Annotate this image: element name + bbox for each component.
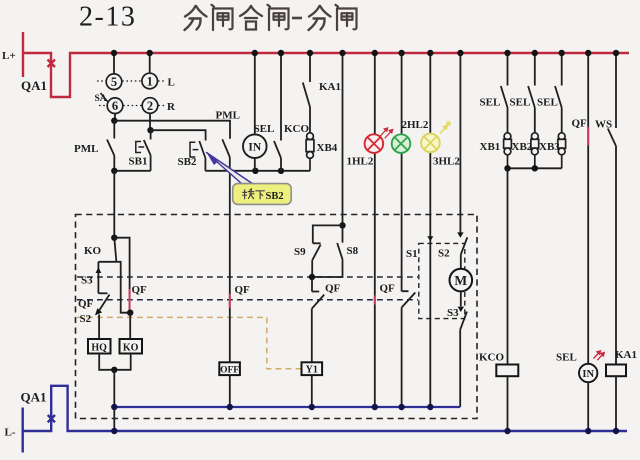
svg-text:S2: S2 bbox=[438, 248, 450, 260]
svg-text:1HL2: 1HL2 bbox=[347, 156, 374, 168]
wire to HQ coil bbox=[98, 315, 100, 340]
contact QF break (Y1 branch) bbox=[312, 277, 324, 362]
node L- bus x114 bbox=[111, 428, 117, 434]
svg-text:SEL: SEL bbox=[556, 352, 577, 364]
svg-text:SEL: SEL bbox=[480, 97, 501, 109]
wire KO to S3/inner bypass bbox=[98, 262, 130, 313]
svg-text:S9: S9 bbox=[294, 246, 306, 258]
svg-text:XB4: XB4 bbox=[317, 142, 338, 154]
coil Y1 bbox=[302, 362, 323, 375]
node inner bus 1HL2 bbox=[372, 404, 378, 410]
svg-text:QA1: QA1 bbox=[21, 390, 47, 405]
lamp 1HL2 arrows bbox=[380, 128, 393, 138]
svg-text:SB2: SB2 bbox=[178, 156, 197, 168]
fuse XB4 bbox=[306, 133, 314, 171]
callout balloon 按下SB2 bbox=[207, 153, 292, 205]
svg-text:S3: S3 bbox=[81, 275, 93, 287]
svg-text:S8: S8 bbox=[347, 245, 359, 257]
svg-text:L+: L+ bbox=[2, 50, 16, 62]
inner blue return bus bbox=[114, 406, 460, 408]
lamp 1HL2 bbox=[365, 134, 384, 153]
svg-text:L: L bbox=[168, 77, 175, 89]
breaker QA1 (bottom, blue) with L- lead bbox=[23, 386, 627, 453]
contact QF red segment on KO branch bbox=[129, 289, 131, 310]
wire XB merge bar bbox=[508, 167, 562, 169]
node bus top row bbox=[111, 50, 619, 56]
svg-text:5: 5 bbox=[111, 75, 117, 89]
svg-text:OFF: OFF bbox=[220, 365, 239, 375]
wire from SA-6 to node bbox=[114, 114, 116, 119]
breaker QA1 (top, red) with bus L+ bbox=[23, 32, 629, 97]
node PML/SB1 bottom bbox=[111, 168, 117, 174]
contact SEL 2 bbox=[528, 53, 535, 133]
svg-text:QA1: QA1 bbox=[21, 78, 47, 93]
selector switch SA contact 6 bbox=[107, 98, 123, 114]
node top of KO bypass bbox=[111, 235, 117, 241]
contact QF red segment right bbox=[587, 127, 589, 145]
svg-text:SEL: SEL bbox=[510, 97, 531, 109]
selector switch SA contact 5 bbox=[106, 74, 122, 90]
svg-text:S1: S1 bbox=[406, 248, 418, 260]
button OFF bbox=[219, 362, 240, 375]
motor M bbox=[450, 269, 473, 292]
wire KCO coil to L- bus bbox=[507, 376, 509, 431]
svg-text:XB1: XB1 bbox=[480, 141, 501, 153]
svg-text:1: 1 bbox=[147, 75, 153, 89]
svg-text:L-: L- bbox=[5, 427, 16, 439]
contact QF with arrow (left chain) bbox=[95, 295, 110, 316]
lamp 2HL2 branch wire with QF break contact bbox=[402, 53, 416, 407]
wire junction down to L- bus bbox=[113, 370, 115, 431]
node rail-IN bbox=[252, 168, 258, 174]
fuse XB3 bbox=[558, 133, 566, 169]
svg-text:SEL: SEL bbox=[254, 123, 275, 135]
SEL IN arrows bbox=[594, 351, 605, 360]
svg-text:WS: WS bbox=[595, 119, 612, 131]
node S9/S8 bottom bbox=[309, 274, 315, 280]
contact S8 bbox=[312, 225, 342, 277]
wire PML-SB1 bottom rail bbox=[114, 170, 150, 172]
node inner bus Y1 bbox=[309, 404, 315, 410]
label SA with pointer bbox=[95, 93, 108, 104]
linkage dashed line tan to Y1 bbox=[77, 317, 301, 368]
coil HQ bbox=[88, 339, 111, 354]
lamp SEL IN (bottom) bbox=[579, 364, 597, 382]
svg-text:XB2: XB2 bbox=[512, 141, 533, 153]
contact QF red segment on OFF branch bbox=[229, 294, 231, 308]
selector switch SA contact 2 bbox=[142, 98, 158, 114]
svg-text:QF: QF bbox=[132, 284, 148, 296]
contact S3 (mechanism) bbox=[460, 312, 467, 407]
svg-text:HQ: HQ bbox=[91, 343, 107, 354]
svg-text:PML: PML bbox=[216, 110, 240, 122]
contact S2 (mechanism) bbox=[461, 237, 468, 268]
lamp 3HL2 arrow bbox=[440, 121, 451, 134]
fuse XB2 bbox=[531, 133, 539, 169]
contact PML (left) bbox=[107, 121, 114, 171]
lamp 1HL2 branch wire bbox=[374, 53, 376, 407]
node L- bus SEL bbox=[585, 428, 591, 434]
svg-text:SB2: SB2 bbox=[266, 191, 284, 202]
node XB1 merge bbox=[504, 165, 510, 171]
svg-text:M: M bbox=[454, 273, 467, 288]
contact PML (second) bbox=[222, 139, 230, 171]
lamp 3HL2 bbox=[421, 134, 440, 153]
node S9/S8 split bbox=[339, 222, 345, 228]
svg-text:S2: S2 bbox=[80, 313, 92, 325]
svg-text:KA1: KA1 bbox=[615, 349, 637, 361]
contact WS bbox=[608, 53, 616, 365]
node L- bus KCO bbox=[504, 428, 510, 434]
svg-text:SEL: SEL bbox=[537, 97, 558, 109]
svg-text:QF: QF bbox=[380, 283, 396, 295]
wire S9/S8 branch from bus bbox=[342, 53, 344, 225]
contact SEL 1 bbox=[501, 53, 508, 133]
node rail-KCO bbox=[278, 168, 284, 174]
coil KCO bbox=[479, 352, 518, 377]
contact KA1 bbox=[303, 53, 310, 133]
wire IN to L- bus bbox=[587, 382, 589, 431]
dashed mechanism box S1 bbox=[419, 243, 465, 318]
limit switch S3 (left chain) bbox=[96, 262, 108, 294]
svg-text:QF: QF bbox=[325, 283, 341, 295]
svg-text:KCO: KCO bbox=[284, 123, 310, 135]
node XB2 merge bbox=[532, 165, 538, 171]
svg-text:KA1: KA1 bbox=[319, 81, 341, 93]
node inner bus x114 bbox=[111, 404, 117, 410]
coil KO bbox=[120, 339, 143, 354]
selector switch SA contact 1 bbox=[142, 73, 158, 89]
wire PML/SB1 down into box bbox=[113, 171, 115, 238]
svg-text:QF: QF bbox=[572, 118, 588, 130]
svg-text:S3: S3 bbox=[447, 307, 459, 319]
svg-text:2: 2 bbox=[147, 99, 153, 113]
contact SEL 3 bbox=[555, 53, 562, 133]
node inner bus OFF bbox=[227, 404, 233, 410]
svg-text:IN: IN bbox=[248, 142, 261, 154]
coil KA1 bbox=[606, 349, 637, 376]
title chinese 分闸合闸-分闸 bbox=[185, 5, 357, 30]
svg-text:IN: IN bbox=[582, 369, 594, 380]
lamp SEL IN (top) bbox=[243, 53, 267, 171]
svg-text:XB3: XB3 bbox=[539, 141, 560, 153]
svg-text:R: R bbox=[167, 101, 176, 113]
pushbutton SB1 bbox=[136, 130, 151, 171]
svg-text:KO: KO bbox=[84, 245, 102, 257]
lamp 3HL2 branch wire bbox=[429, 53, 431, 407]
wire OFF branch from rail bbox=[229, 171, 231, 362]
wire Y1 to inner bus bbox=[311, 375, 313, 407]
arrow S2 actuator bbox=[457, 232, 463, 237]
svg-text:PML: PML bbox=[74, 143, 98, 155]
contact QF red segment on 1HL2 branch bbox=[374, 296, 376, 305]
wire bypass to KO coil bbox=[129, 313, 131, 339]
wire bottom rail SB2 to XB4 bbox=[205, 170, 310, 172]
wire OFF to inner bus bbox=[229, 375, 231, 407]
svg-text:SB1: SB1 bbox=[129, 156, 148, 168]
wire M to S3 bbox=[460, 291, 462, 306]
arrow S3 actuator bbox=[458, 307, 464, 312]
wire KA1 coil to L- bus bbox=[615, 376, 617, 431]
wire merge down to KCO coil bbox=[507, 168, 509, 364]
node HQ/KO junction bbox=[111, 367, 117, 373]
wire node to SB2 drop bbox=[151, 130, 206, 140]
arrow on 3HL2 wire at mechanism box bbox=[427, 236, 433, 241]
linkage dashed line upper bbox=[77, 276, 418, 278]
pushbutton SB2 bbox=[190, 141, 205, 171]
svg-text:QF: QF bbox=[78, 298, 94, 310]
linkage dashed line lower bbox=[77, 299, 418, 301]
svg-text:3HL2: 3HL2 bbox=[433, 156, 460, 168]
node inner bus 2HL2 bbox=[398, 404, 404, 410]
contact KO bbox=[114, 238, 116, 262]
wire HQ/KO bottoms joined bbox=[99, 354, 131, 370]
wire node to PML2 drop bbox=[114, 121, 230, 139]
dashed enclosure box (cabinet) bbox=[76, 215, 478, 419]
svg-text:Y1: Y1 bbox=[306, 364, 318, 375]
motor branch wire from bus bbox=[459, 53, 461, 233]
wire from SA-2 down bbox=[149, 113, 151, 127]
node below SA-2 bbox=[147, 127, 153, 133]
contact QF (right indication) bbox=[587, 53, 589, 364]
SA dotted linkage lines bbox=[97, 81, 166, 106]
lamp 2HL2 bbox=[392, 134, 411, 153]
svg-text:2-13: 2-13 bbox=[79, 2, 136, 33]
node KO coil top bbox=[127, 310, 133, 316]
svg-text:6: 6 bbox=[112, 99, 118, 113]
svg-text:KO: KO bbox=[123, 343, 139, 354]
svg-text:2HL2: 2HL2 bbox=[402, 119, 429, 131]
node below SA-6 bbox=[111, 118, 117, 124]
wire bypass to KO coil branch bbox=[114, 238, 129, 313]
contact KCO bbox=[274, 53, 281, 171]
contact S9 bbox=[312, 225, 342, 277]
wire bus drops to SA contacts bbox=[114, 53, 150, 74]
svg-text:KCO: KCO bbox=[479, 352, 505, 364]
node L- bus KA1 bbox=[613, 428, 619, 434]
svg-text:QF: QF bbox=[235, 284, 251, 296]
fuse XB1 bbox=[504, 133, 512, 169]
node inner bus 3HL2 bbox=[427, 404, 433, 410]
